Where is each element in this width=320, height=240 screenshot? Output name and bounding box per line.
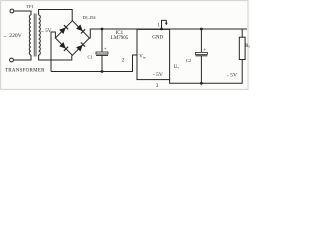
node dot C1 bottom: [101, 70, 104, 73]
svg-text:+: +: [203, 48, 206, 53]
wire RL top lead: [241, 29, 243, 37]
wire primary bottom: [13, 55, 31, 60]
node dot C1 top: [101, 28, 104, 31]
ground: [165, 23, 168, 26]
transformer primary winding: [29, 15, 31, 55]
node dot C2 bottom: [200, 82, 203, 85]
svg-text:~: ~: [41, 29, 44, 35]
resistor RL: [239, 37, 245, 59]
svg-text:TF1: TF1: [26, 4, 34, 9]
wire secondary bottom to bridge: [39, 55, 72, 60]
op-amp regulator box IC1: [137, 29, 170, 79]
wire bridge left vertex to bottom rail: [51, 32, 55, 72]
svg-text:3: 3: [156, 83, 159, 89]
transformer core: [33, 14, 35, 57]
capacitor C2: [195, 29, 207, 83]
svg-text:LM7905: LM7905: [111, 36, 129, 41]
transformer secondary winding: [39, 15, 41, 55]
primary terminal bottom (circle): [10, 58, 14, 62]
node dot C2 top: [200, 28, 203, 31]
node dot pin1/GND on rail: [160, 28, 163, 31]
bridge rectifier D1--D4 diamond: [55, 21, 89, 56]
border frame: [1, 1, 248, 90]
diode D1 (upper-left arm): [59, 25, 68, 34]
wire secondary top to bridge: [39, 10, 73, 21]
svg-text:+: +: [104, 47, 107, 52]
svg-text:- 5V: - 5V: [153, 72, 163, 78]
svg-text:C2: C2: [186, 58, 192, 63]
svg-text:D1–D4: D1–D4: [83, 15, 97, 20]
svg-text:RL: RL: [245, 44, 250, 49]
svg-text:~: ~: [3, 34, 6, 40]
diode D2 (upper-right arm): [76, 25, 85, 34]
svg-text:Vin: Vin: [139, 55, 145, 60]
ground symbol lead: [162, 20, 167, 29]
diode D4 (lower-right arm): [76, 42, 85, 51]
diode D3 (lower-left arm): [59, 42, 68, 51]
svg-text:C1: C1: [88, 55, 93, 60]
svg-text:Uo: Uo: [174, 65, 180, 70]
capacitor C1: [96, 29, 108, 72]
primary terminal top (circle): [10, 9, 14, 13]
svg-text:2: 2: [122, 58, 125, 64]
wire output pin3 (box corner down to -5V line): [170, 60, 243, 84]
bottom rail (negative, left): [51, 55, 137, 72]
wire bridge right vertex to top rail: [89, 29, 247, 38]
svg-text:- 5V: - 5V: [227, 72, 237, 78]
svg-text:TRANSFORMER: TRANSFORMER: [5, 68, 45, 73]
svg-text:GND: GND: [152, 36, 163, 41]
wire primary top: [14, 11, 31, 15]
svg-text:220V: 220V: [9, 33, 21, 39]
